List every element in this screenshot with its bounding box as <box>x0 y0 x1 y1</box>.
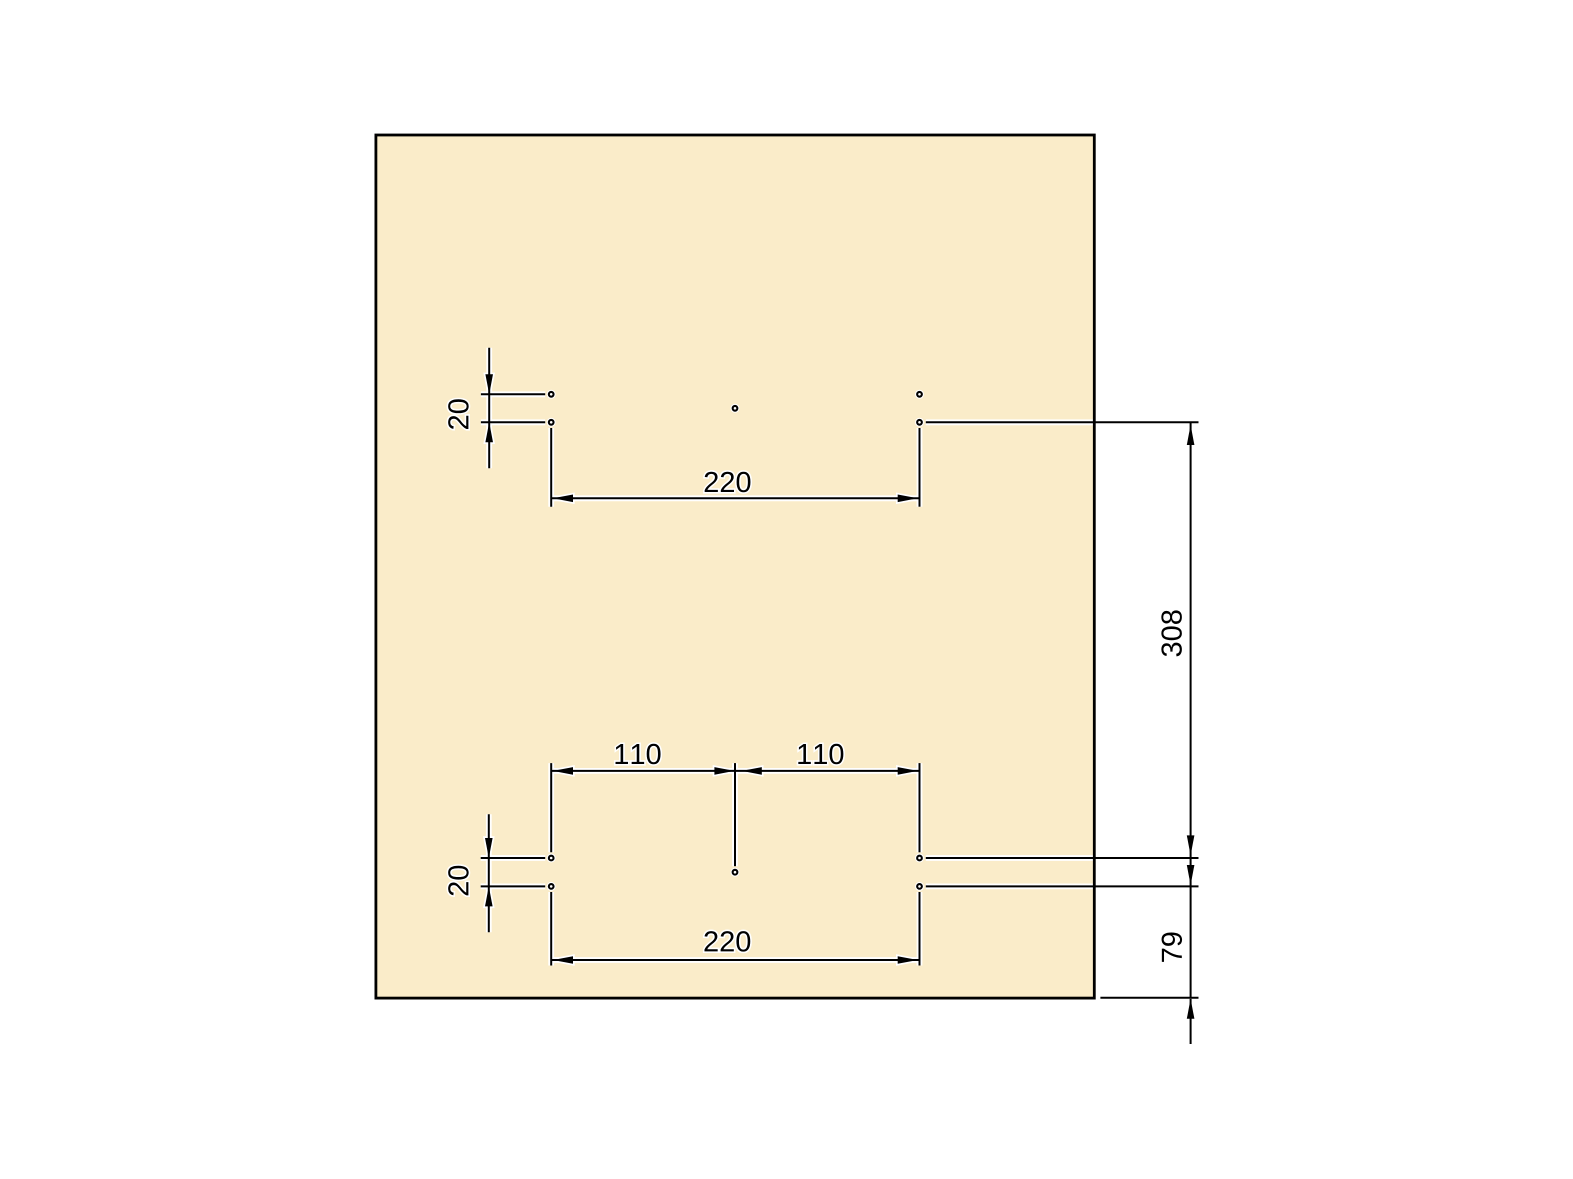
110 center-left arrowhead <box>714 767 734 775</box>
top 20 down arrowhead <box>485 374 493 394</box>
308 dimension line <box>1190 422 1192 858</box>
bottom 220 dimension line <box>551 959 919 961</box>
label 110 (right) <box>798 744 843 765</box>
top 220 left arrowhead <box>553 495 573 503</box>
top 220 left extension line <box>550 428 552 507</box>
top 20 dimension line <box>488 348 490 468</box>
label 110 (left) <box>616 744 661 765</box>
hole bottom-center <box>733 870 738 875</box>
label 20 (top) <box>448 399 469 429</box>
bottom 20 up arrowhead <box>485 886 493 906</box>
hole bottom-left lower <box>549 884 554 889</box>
bottom 220 right arrowhead <box>898 956 918 964</box>
top 20 up arrowhead <box>485 422 493 442</box>
110 center extension line <box>734 763 736 866</box>
line from bottom-right lower hole to 79 dimension <box>926 885 1199 887</box>
bottom-left upper extension line <box>481 857 546 859</box>
110 dimension line <box>551 770 919 772</box>
line from bottom-right upper hole to 308 end <box>926 857 1199 859</box>
bottom 20 down arrowhead <box>485 838 493 858</box>
label 79 <box>1162 932 1183 961</box>
hole top-right lower <box>917 420 922 425</box>
panel border <box>376 135 1094 998</box>
bottom 220 left arrowhead <box>553 956 573 964</box>
bottom 20 dimension line <box>488 814 490 932</box>
bottom edge extension line <box>1100 997 1198 999</box>
top 220 right extension line <box>919 428 921 507</box>
hole bottom-right upper <box>917 856 922 861</box>
line from top-right lower hole to 308 dimension <box>926 421 1199 423</box>
hole top-right upper <box>917 392 922 397</box>
110 left extension line <box>550 763 552 852</box>
right connector line between hole rows <box>1190 858 1192 886</box>
110 left arrowhead <box>553 767 573 775</box>
bottom 220 left extension line <box>550 892 552 966</box>
hole bottom-left upper <box>549 856 554 861</box>
label 20 (bottom) <box>448 866 469 896</box>
label 220 (top) <box>705 472 751 493</box>
308 down arrowhead <box>1187 835 1195 855</box>
top 220 right arrowhead <box>898 495 918 503</box>
79 top down arrowhead <box>1187 865 1195 885</box>
bottom-left lower extension line <box>481 885 546 887</box>
white halo casings layer <box>448 348 1198 1044</box>
79 dimension line <box>1190 886 1192 997</box>
110 center-right arrowhead <box>742 767 762 775</box>
label 308 <box>1161 610 1182 656</box>
308 up arrowhead <box>1187 425 1195 445</box>
79 bottom up arrowhead <box>1187 999 1195 1019</box>
hole top-left upper <box>549 392 554 397</box>
bottom 220 right extension line <box>919 892 921 966</box>
110 right arrowhead <box>898 767 918 775</box>
wood panel face <box>376 135 1094 998</box>
hole top-center <box>733 406 738 411</box>
79 lower arrow tail line <box>1190 999 1192 1044</box>
top-left lower extension line <box>481 421 545 423</box>
hole bottom-right lower <box>917 884 922 889</box>
label 220 (bottom) <box>704 931 750 952</box>
top 220 dimension line <box>551 497 919 499</box>
110 right extension line <box>919 763 921 852</box>
top-left upper extension line <box>481 393 545 395</box>
hole top-left lower <box>549 420 554 425</box>
